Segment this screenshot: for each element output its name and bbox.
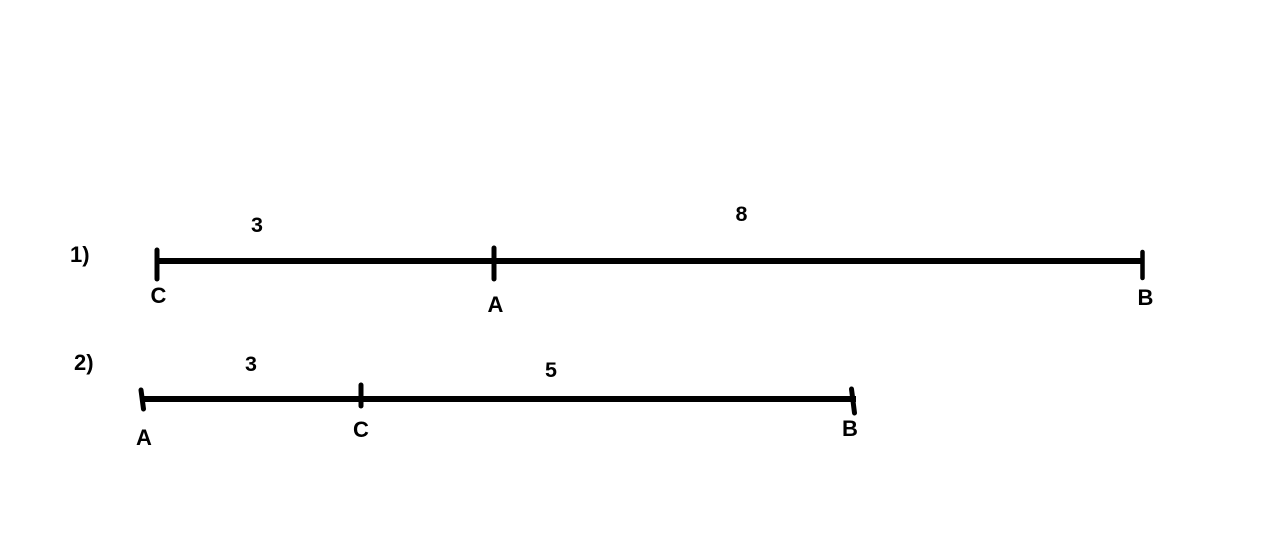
svg-text:B: B <box>1138 285 1154 310</box>
svg-text:2): 2) <box>74 350 94 375</box>
svg-text:8: 8 <box>736 202 748 226</box>
svg-text:1): 1) <box>70 242 90 267</box>
svg-text:A: A <box>136 425 152 450</box>
svg-text:A: A <box>488 292 504 317</box>
svg-text:5: 5 <box>545 358 557 382</box>
svg-text:3: 3 <box>245 352 257 376</box>
svg-text:B: B <box>842 416 858 441</box>
svg-text:3: 3 <box>251 213 263 237</box>
svg-text:C: C <box>151 283 167 308</box>
svg-text:C: C <box>353 417 369 442</box>
